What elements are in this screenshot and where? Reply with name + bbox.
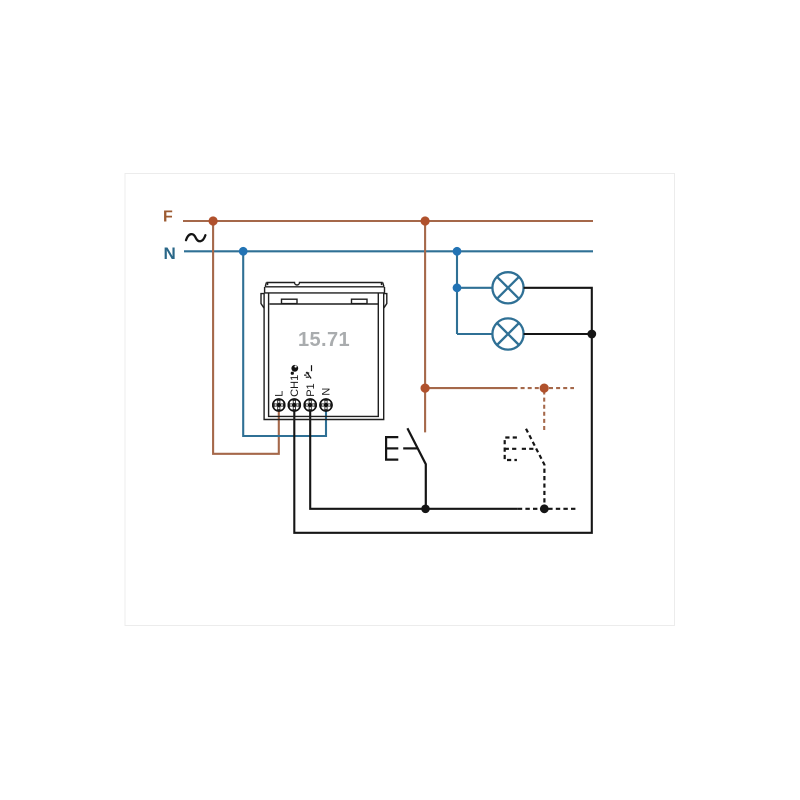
- terminal CH1 load icon: [291, 365, 299, 375]
- svg-text:N: N: [164, 244, 176, 263]
- device left ear: [261, 294, 264, 309]
- wire brown switch feed (F to pushbutton S1): [424, 221, 426, 432]
- node N feed junction: [239, 247, 248, 256]
- wire P1 to pushbuttons (solid part): [310, 411, 518, 509]
- svg-text:15.71: 15.71: [298, 329, 350, 351]
- wire dashed brown drop to optional pushbutton S2: [543, 391, 545, 433]
- node S1-P1 junction: [421, 505, 430, 514]
- wire lamp 2 return: [524, 333, 592, 335]
- svg-text:CH1: CH1: [289, 375, 301, 397]
- device right ear: [384, 294, 387, 309]
- device clip right: [352, 299, 368, 303]
- lamp E1: [492, 272, 523, 303]
- wire lamp 1 return: [524, 288, 592, 334]
- wire brown branch to optional pushbutton (dashed part): [514, 387, 575, 389]
- terminal screw L: [273, 399, 285, 411]
- wire blue lamp feed vertical: [456, 251, 458, 334]
- device collar: [265, 287, 385, 293]
- wire return to terminal CH1: [294, 334, 592, 533]
- device clip left: [282, 299, 298, 303]
- lamp E2: [492, 318, 523, 349]
- svg-text:P1: P1: [305, 383, 317, 396]
- terminal screw N: [320, 399, 332, 411]
- node optional switch contact (brown): [540, 384, 549, 393]
- pushbutton S1: [386, 428, 426, 509]
- terminal P1 pushbutton icon: [304, 365, 311, 378]
- device body outer wall: [264, 293, 384, 420]
- node F-switch junction: [421, 216, 430, 225]
- wire blue lamp 1 feed: [457, 287, 492, 289]
- svg-text:N: N: [321, 388, 333, 396]
- relay 15.71 device body: [261, 283, 387, 420]
- node lamp 1 branch junction: [453, 283, 462, 292]
- svg-text:L: L: [273, 391, 285, 397]
- wire P1 extension (dashed part): [518, 508, 576, 510]
- AC tilde symbol: [186, 234, 205, 241]
- wire blue N feed (N to terminal N): [243, 251, 326, 436]
- pushbutton S2 (optional, dashed): [505, 429, 545, 510]
- device lid sides: [265, 283, 384, 287]
- node S2-P1 junction: [540, 504, 549, 513]
- device body inner wall: [269, 293, 379, 417]
- terminal screw P1: [304, 399, 316, 411]
- wire brown branch to optional pushbutton (solid part): [425, 387, 513, 389]
- terminal screw CH1: [288, 399, 300, 411]
- faint product image frame: [125, 174, 675, 626]
- device shelf line: [270, 303, 379, 305]
- node F-L junction: [209, 216, 218, 225]
- wire brown L feed (F to terminal L): [213, 221, 279, 454]
- node switch branch junction (brown): [421, 384, 430, 393]
- wire N line (neutral bus): [184, 250, 593, 252]
- device lid bottom: [265, 286, 384, 288]
- device lid top: [266, 283, 382, 286]
- node lamp return junction: [587, 330, 596, 339]
- wire blue lamp 2 feed: [457, 333, 492, 335]
- wire F line (phase bus): [183, 220, 593, 222]
- svg-text:F: F: [163, 209, 173, 226]
- node N lamp junction: [453, 247, 462, 256]
